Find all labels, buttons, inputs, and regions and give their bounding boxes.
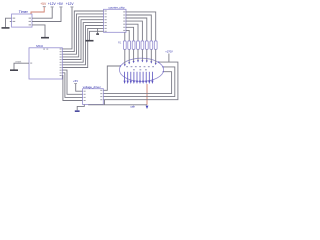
ground GND5 (below driver, blue) xyxy=(75,110,80,112)
pin numbers timer right xyxy=(29,18,31,19)
resistor R7 xyxy=(150,41,153,50)
svg-text:+5V: +5V xyxy=(57,2,64,6)
wire: MCU left pin to ground xyxy=(14,63,29,69)
wire bus: counter pin L5 to MCU xyxy=(62,23,103,63)
wire: stub junction to anode return xyxy=(104,100,106,105)
wire bus: counter pin L3 to MCU xyxy=(62,17,103,57)
nixie tube V1 envelope xyxy=(119,58,163,81)
svg-text:Timer: Timer xyxy=(19,10,29,14)
tube cathode arrow 7 xyxy=(142,72,144,84)
wire bus: counter pin L2 to MCU xyxy=(62,14,103,54)
wire: tube right pin 1 loop to driver xyxy=(103,62,178,100)
ground GND1 (left of timer) xyxy=(2,27,10,29)
wire: counter pin R7 to resistor column 2 xyxy=(126,30,129,40)
tube interior pin numbers xyxy=(126,66,154,70)
driver right pin numbers xyxy=(100,90,102,100)
MCU U4 body xyxy=(29,48,62,79)
resistor R4 xyxy=(137,41,140,50)
svg-text:voltage_driver: voltage_driver xyxy=(83,85,101,89)
ground GND2 (right of timer) xyxy=(41,37,49,39)
wire: counter bottom pin to resistor column 1 xyxy=(124,32,126,41)
port arrow (cathode net) xyxy=(146,106,149,109)
resistor R3 xyxy=(132,41,135,50)
tube right pin dots xyxy=(158,61,164,72)
pin numbers timer left xyxy=(13,18,16,19)
wire: resistor1 to tube anode pin xyxy=(124,49,126,64)
MCU right pin numbers xyxy=(60,49,62,77)
wire: MCU pin to driver pin C xyxy=(62,75,82,100)
tube cathode arrow 2 xyxy=(127,72,129,84)
ground GND3 (below counter bus) xyxy=(86,40,94,42)
wire: resistor6 to tube pin xyxy=(146,49,148,60)
tube left pin dot xyxy=(120,65,121,66)
tube cathode arrow 4 xyxy=(133,72,135,84)
wire: tube right pin 3 loop to driver xyxy=(103,72,171,94)
wire: resistor4 to tube pin xyxy=(137,49,139,60)
pin numbers counter left xyxy=(105,11,107,12)
resistor R2 xyxy=(128,41,131,50)
wire: driver bottom pin to cathode net xyxy=(89,104,147,106)
ground GND4 (left of MCU) xyxy=(10,69,18,71)
tube cathode arrow 5 xyxy=(136,72,138,84)
pin text under +5V xyxy=(74,83,77,84)
wire: timer left pin 2 stub xyxy=(10,21,12,23)
driver left pin numbers xyxy=(84,91,86,101)
wire red: +5V net to timer top pin xyxy=(31,7,44,15)
wire: counter pin R3 to resistor column 6 xyxy=(126,18,147,41)
counter U2 body xyxy=(104,9,127,32)
svg-text:R1: R1 xyxy=(118,41,122,45)
wire: counter pin R1 to resistor column 8 xyxy=(126,12,156,41)
wire: counter pin R2 to resistor column 7 xyxy=(126,15,151,41)
NC stub bar xyxy=(96,33,99,35)
wire: timer pin5 to ground xyxy=(32,25,45,37)
wire: NC stub below counter xyxy=(97,28,99,33)
wire: resistor5 to tube pin xyxy=(141,49,143,60)
resistor R6 xyxy=(145,41,148,50)
wire: driver bottom pin to ground xyxy=(77,105,84,111)
wire bus: counter pin L7 to MCU xyxy=(62,28,103,67)
wire: +170V stub down xyxy=(168,54,170,63)
tube cathode arrow 10 xyxy=(151,72,153,84)
wire: tube right pin 2 loop to driver xyxy=(103,67,175,97)
driver U3 body xyxy=(83,89,104,105)
wire: resistor7 to tube pin xyxy=(150,49,152,61)
wire: counter pin L8 to ground xyxy=(90,31,104,40)
resistor R1 xyxy=(123,41,126,50)
wire: +5V to driver pin xyxy=(76,84,83,91)
svg-text:+170V: +170V xyxy=(165,50,173,54)
svg-text:+12V: +12V xyxy=(66,2,75,6)
timer U1 body xyxy=(12,14,32,27)
wire bus: counter pin L1 to MCU xyxy=(62,11,103,52)
wire: counter pin R4 to resistor column 5 xyxy=(126,21,142,41)
wire: tube left pin to driver right pin xyxy=(103,66,120,90)
svg-text:+12V: +12V xyxy=(48,2,57,6)
wire red: tube cathode common down xyxy=(146,84,148,105)
pin name texts under labels xyxy=(43,6,46,7)
wire: timer pin4 to node RST vertical xyxy=(32,8,61,22)
resistor R8 xyxy=(154,41,157,50)
wire: resistor8 to tube pin xyxy=(155,49,157,63)
tube cathode arrow 6 xyxy=(139,72,141,84)
svg-text:+5V: +5V xyxy=(40,2,47,6)
svg-text:counter_chip: counter_chip xyxy=(109,5,125,9)
wire: timer left pin to ground xyxy=(6,18,12,27)
resistor R5 xyxy=(141,41,144,50)
wire bus: counter pin L4 to MCU xyxy=(62,20,103,60)
svg-text:+5V: +5V xyxy=(73,79,78,83)
wire: MCU pin to driver pin A xyxy=(62,70,82,94)
wire bus: counter pin L6 to MCU xyxy=(62,26,103,65)
tube cathode arrow 8 xyxy=(145,72,147,84)
tube top pin arrows xyxy=(124,60,157,66)
wire: MCU pin to driver pin B xyxy=(62,73,82,98)
wire: ENA label down to MCU pin1 xyxy=(62,8,72,49)
MCU left pin number xyxy=(30,63,32,64)
tube cathode arrow 3 xyxy=(130,72,132,84)
wire: timer pin3 to node CLK vertical xyxy=(32,8,52,19)
wire: resistor3 to tube pin xyxy=(133,49,135,61)
MCU top pin numbers xyxy=(43,49,45,50)
wire: counter pin R6 to resistor column 3 xyxy=(126,27,134,41)
tube cathode arrow 1 xyxy=(124,72,126,84)
wire: counter pin R5 to resistor column 4 xyxy=(126,24,138,41)
pin numbers counter right xyxy=(123,11,125,12)
svg-text:cath: cath xyxy=(130,105,135,108)
wire: resistor2 to tube pin xyxy=(128,49,130,62)
svg-text:MCU: MCU xyxy=(36,44,43,48)
tube cathode arrow 9 xyxy=(148,72,150,84)
